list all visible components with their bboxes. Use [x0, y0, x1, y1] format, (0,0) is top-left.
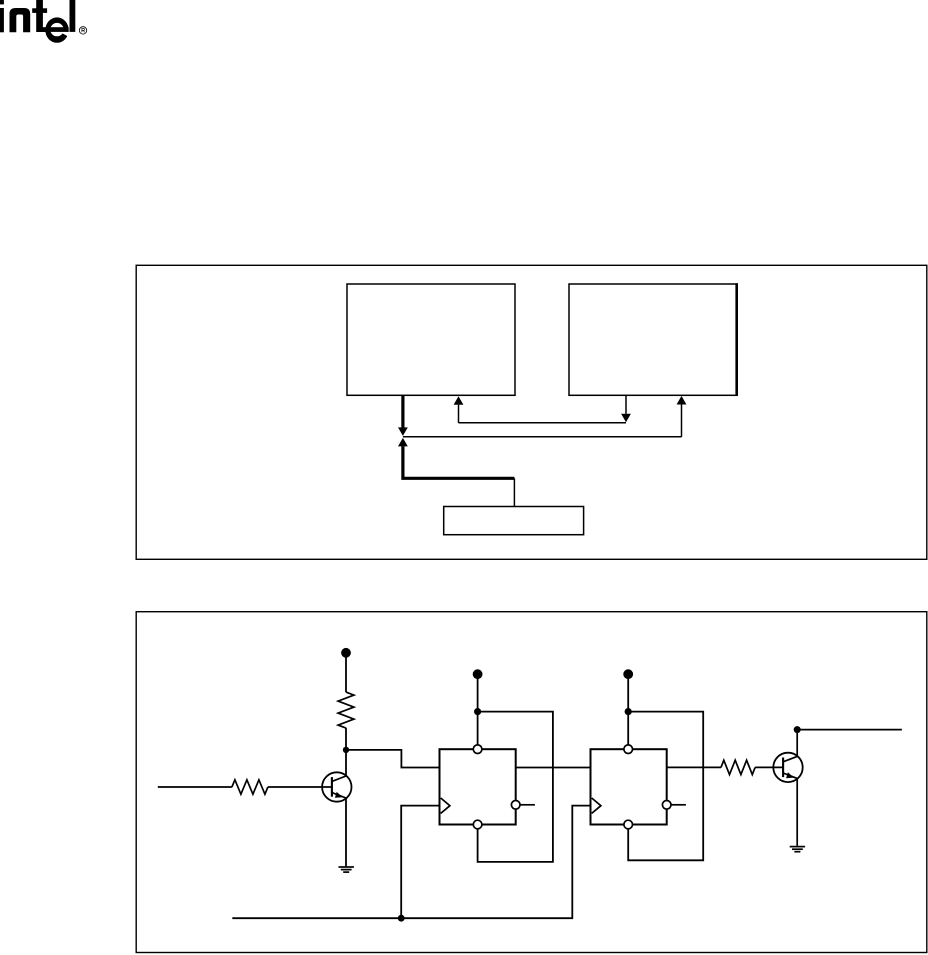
- flip-flop U1 box: [440, 749, 516, 824]
- emitter wire Q1: [345, 798, 347, 866]
- transistor Q2: [773, 753, 802, 782]
- resistor R1 (base of Q1): [232, 780, 268, 794]
- U2 node dot: [625, 708, 632, 715]
- intel logo: [0, 0, 87, 43]
- U1 preset circle (top): [473, 745, 482, 754]
- resistor R2 (pull-up): [338, 692, 354, 728]
- wire: box C up to bus (thick, arrow up): [398, 438, 514, 507]
- block box A (left): [347, 284, 515, 395]
- supply wire (above R2): [345, 653, 347, 692]
- wire: box B down to return line (arrow down): [621, 396, 631, 422]
- output node dot (Q2 collector): [794, 726, 801, 733]
- U1 supply wire: [477, 674, 479, 745]
- wire R1 to Q1 base: [268, 786, 332, 788]
- wire node to U1 D input: [346, 750, 440, 768]
- output wire: [797, 729, 902, 731]
- wire R2 to node: [345, 728, 347, 750]
- wire: bus up into box B (arrow up): [677, 396, 687, 437]
- figure 1 frame: [136, 265, 927, 559]
- U1 tie loop wire: [478, 712, 553, 862]
- collector wire Q2 to output node: [796, 730, 798, 757]
- U2 tie loop wire: [628, 712, 703, 861]
- U1 supply dot: [473, 669, 483, 679]
- emitter wire Q2: [796, 778, 798, 846]
- transistor Q1: [322, 772, 351, 801]
- U2 clear circle (bottom): [624, 820, 633, 829]
- node dot (Q1 collector): [343, 747, 349, 753]
- wire: box A down to bus (thick, arrow down): [398, 396, 408, 436]
- return wire into box A (arrow up): [454, 396, 626, 423]
- U2 Qbar circle and stub: [662, 801, 686, 810]
- figure 2 frame: [136, 612, 927, 953]
- clock branch wire to U1: [401, 806, 439, 919]
- input wire: [158, 786, 232, 788]
- ground G1: [339, 867, 354, 872]
- collector wire Q1 to node: [345, 750, 347, 776]
- wire U1 Q to U2 D: [516, 767, 591, 769]
- block box B (right): [569, 283, 737, 396]
- U2 preset circle (top): [624, 745, 633, 754]
- wire U2 Q to R3: [667, 766, 721, 768]
- U2 clock triangle: [592, 798, 601, 813]
- bus wire (horizontal): [403, 436, 682, 438]
- clock wire (bottom line to U2): [232, 806, 590, 919]
- U2 supply dot: [623, 669, 633, 679]
- supply dot (VCC for Q1): [341, 648, 351, 658]
- U1 clock triangle: [441, 798, 450, 813]
- U1 Qbar circle and stub: [511, 801, 535, 810]
- U1 clear circle (bottom): [473, 820, 482, 829]
- flip-flop U2 box: [591, 749, 667, 824]
- U1 node dot: [474, 708, 481, 715]
- clock junction dot: [398, 915, 405, 922]
- U2 supply wire: [627, 674, 629, 745]
- resistor R3 (base of Q2): [721, 760, 755, 774]
- wire R3 to Q2 base: [755, 766, 783, 768]
- ground G2: [790, 847, 805, 852]
- block box C (small bottom): [444, 507, 584, 535]
